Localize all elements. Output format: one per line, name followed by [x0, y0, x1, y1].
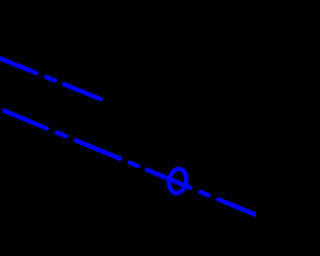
wire L1 dash 1 [0, 55, 36, 73]
wire L2 dash 7 [218, 199, 263, 218]
wire L2 dash 4 [130, 163, 138, 166]
dashed line L2 (lower) [4, 111, 263, 218]
wire L1 dash 2 [46, 77, 55, 81]
wire L2 dash 3 [76, 140, 120, 158]
wire L2 dash 6 [201, 192, 209, 195]
dashed line L1 (upper) [0, 55, 101, 99]
theta symbol (ellipse on lower line) [167, 168, 188, 195]
wire L2 dash 5 [147, 170, 190, 188]
wire L2 dash 1 [4, 111, 47, 129]
wire L1 dash 3 [64, 84, 100, 99]
wire L2 dash 2 [57, 133, 66, 137]
